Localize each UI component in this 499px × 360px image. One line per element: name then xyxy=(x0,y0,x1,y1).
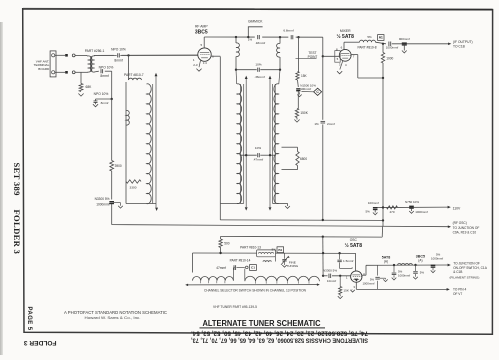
channel selector coil row (right group) xyxy=(245,276,320,281)
svg-text:8mmf: 8mmf xyxy=(114,58,122,62)
wire: bus down to 15K xyxy=(298,37,300,71)
svg-text:1000mmf: 1000mmf xyxy=(431,257,443,261)
svg-text:ON-OFF SWITCH, C1A: ON-OFF SWITCH, C1A xyxy=(453,266,488,270)
svg-text:½ 5AT8: ½ 5AT8 xyxy=(336,33,354,40)
coil bank L2b xyxy=(237,84,242,204)
svg-text:150K: 150K xyxy=(300,111,308,115)
svg-text:10%: 10% xyxy=(255,63,261,67)
channel selector coil row (left group) xyxy=(193,277,234,281)
svg-text:PAGE 5: PAGE 5 xyxy=(26,307,32,331)
oscillator tank top line xyxy=(193,252,356,254)
svg-text:8mmf: 8mmf xyxy=(100,74,108,78)
svg-text:PART #810-13: PART #810-13 xyxy=(240,246,261,250)
svg-text:OF V7: OF V7 xyxy=(453,292,462,296)
alignment diamond C xyxy=(302,91,314,93)
resistor 1000 ohm (mixer plate load) xyxy=(382,43,384,45)
osc filament bottom line xyxy=(355,282,357,289)
svg-text:1%: 1% xyxy=(314,122,319,126)
wire down left rail xyxy=(111,99,113,161)
capacitor .36mmf 10% (link) xyxy=(236,69,257,71)
svg-text:5%: 5% xyxy=(367,35,372,39)
svg-text:A PHOTOFACT STANDARD NOTATION: A PHOTOFACT STANDARD NOTATION SCHEMATIC xyxy=(64,310,168,315)
capacitor N3300 5% 1000mmf feedthrough to ground xyxy=(109,201,114,203)
capacitor 1000mmf 5% to ground (second) xyxy=(414,264,416,266)
bus B+ (y 220) xyxy=(220,219,383,222)
ground: mixer cathode xyxy=(340,61,343,70)
svg-text:3: 3 xyxy=(339,63,341,67)
resistor 150K with ground xyxy=(295,109,298,118)
svg-text:MIXER: MIXER xyxy=(340,29,351,33)
svg-text:TO JUNCTION OF: TO JUNCTION OF xyxy=(453,261,480,265)
node: grid line junction xyxy=(127,54,129,56)
svg-text:5%: 5% xyxy=(365,209,370,213)
fine tuning capacitor xyxy=(284,253,286,259)
110V line xyxy=(375,206,448,209)
svg-text:10%: 10% xyxy=(255,146,261,150)
wire: osc plate riser xyxy=(355,253,357,271)
svg-text:PART #810-7: PART #810-7 xyxy=(124,73,144,77)
svg-text:2-3: 2-3 xyxy=(193,63,198,67)
svg-text:(RF OSC): (RF OSC) xyxy=(453,221,467,225)
svg-text:1: 1 xyxy=(193,58,195,62)
bus to oscillator (y 236.5) xyxy=(221,235,383,238)
wiper arrows bank 1 xyxy=(155,76,157,208)
capacitor NPO 10% 8mmf to ground xyxy=(96,98,112,100)
wire: secondary top to grid line xyxy=(93,54,95,57)
svg-text:6.8mmf: 6.8mmf xyxy=(283,28,293,32)
svg-text:GIMMICK: GIMMICK xyxy=(248,19,263,23)
filament line from pin 4 xyxy=(362,274,366,276)
svg-text:(FILAMENT STRING): (FILAMENT STRING) xyxy=(450,276,480,280)
svg-text:C1: C1 xyxy=(251,266,255,270)
node xyxy=(111,98,113,100)
svg-text:4: 4 xyxy=(345,63,347,67)
svg-text:N750 10%: N750 10% xyxy=(405,200,419,204)
svg-text:4 4: 4 4 xyxy=(203,61,207,65)
svg-text:2mmf: 2mmf xyxy=(327,122,335,126)
svg-text:OSC: OSC xyxy=(350,238,358,242)
alignment box C1 xyxy=(246,266,249,269)
VHF antenna terminal board xyxy=(50,51,56,77)
coil (filament choke) xyxy=(398,264,413,266)
resistor 6800 ohm across bank3 taps xyxy=(282,146,298,148)
wire: left side of channel selector xyxy=(192,253,194,273)
svg-text:PART #810-8: PART #810-8 xyxy=(358,45,377,49)
svg-text:ALTERNATE TUNER SCHEMATIC: ALTERNATE TUNER SCHEMATIC xyxy=(203,319,321,328)
svg-text:1000mmf: 1000mmf xyxy=(398,274,410,278)
coil PART #810-8 xyxy=(360,40,376,42)
wire: mixer plate riser xyxy=(343,42,345,49)
svg-text:1000mmf: 1000mmf xyxy=(415,210,428,214)
coil L3a (top, hangs from bus) xyxy=(279,36,281,38)
svg-text:TO JUNCTION OF: TO JUNCTION OF xyxy=(453,226,480,230)
coupling to heater return: vertical with capacitor xyxy=(377,265,379,289)
IF output arrow xyxy=(448,42,451,45)
resistor 15K to ground xyxy=(339,275,341,277)
capacitor .18mmf 1% (series on bus) xyxy=(255,35,262,40)
svg-text:7: 7 xyxy=(353,54,355,58)
svg-text:470: 470 xyxy=(389,210,394,214)
long AGC bus xyxy=(112,225,450,227)
svg-text:5: 5 xyxy=(201,43,203,47)
wire: upper antenna lead xyxy=(55,54,65,56)
svg-text:3BC5: 3BC5 xyxy=(195,30,208,36)
svg-text:5%: 5% xyxy=(272,248,277,252)
capacitor 2mmf 1% (series in grid leak) xyxy=(319,120,326,125)
svg-text:C9A, R19 & C10: C9A, R19 & C10 xyxy=(453,230,477,234)
wire: mixer pin 7 to plate rail xyxy=(351,54,358,56)
channel selector shaft arrow xyxy=(187,284,319,286)
svg-text:2: 2 xyxy=(351,266,353,270)
svg-text:C: C xyxy=(316,90,319,94)
svg-text:47mmf: 47mmf xyxy=(216,266,226,270)
riser: cap branch xyxy=(232,268,234,281)
wire: grid tap to mixer xyxy=(322,55,324,57)
svg-text:900mmf: 900mmf xyxy=(399,37,410,41)
svg-text:BOARD: BOARD xyxy=(38,67,50,71)
svg-text:6: 6 xyxy=(341,45,343,49)
wire: bus right end down to mixer grid xyxy=(322,37,324,220)
svg-text:15K: 15K xyxy=(301,74,308,78)
wiper arrows bank 3 xyxy=(269,79,271,207)
wire: down from secondary network xyxy=(111,71,113,99)
svg-text:RF AMP: RF AMP xyxy=(195,24,208,28)
resistor 3900 ohm xyxy=(110,161,114,172)
capacitor 1.5mmf xyxy=(338,252,340,254)
coil L2a (top, hangs from bus) xyxy=(235,36,237,38)
svg-text:NPO 10%: NPO 10% xyxy=(94,92,109,96)
capacitor NPO 10% 8mmf (secondary bottom) xyxy=(94,70,99,73)
resistor 470 ohm xyxy=(387,206,398,209)
svg-text:5: 5 xyxy=(337,57,339,61)
svg-text:(A): (A) xyxy=(384,260,388,264)
wire: bank2 bottom xyxy=(220,202,243,204)
grid chain: vertical from top xyxy=(322,237,324,276)
svg-text:SILVERTONE CHASSIS 528.50060,: SILVERTONE CHASSIS 528.50060, 62, 63, 64… xyxy=(191,337,368,344)
svg-text:A1: A1 xyxy=(379,36,383,40)
svg-text:Howard W. Sams & Co., Inc.: Howard W. Sams & Co., Inc. xyxy=(85,316,141,320)
svg-text:VHF TUNER PART #95-139-5: VHF TUNER PART #95-139-5 xyxy=(213,305,257,309)
wire: pin 6 to plate rail xyxy=(211,55,220,57)
capacitor NPO 10% 8mmf (series, grid line) xyxy=(117,53,119,57)
svg-text:NPO 10%: NPO 10% xyxy=(111,48,126,52)
svg-text:FOLDER 3: FOLDER 3 xyxy=(24,339,57,346)
svg-text:B1: B1 xyxy=(278,248,282,252)
wiper arrows bank 2 xyxy=(245,79,247,207)
svg-text:15K: 15K xyxy=(343,289,349,293)
svg-text:1000mmf: 1000mmf xyxy=(362,282,374,286)
svg-text:100mmf: 100mmf xyxy=(368,201,379,205)
wire: lower antenna lead xyxy=(55,71,65,73)
wire: to IF output xyxy=(376,42,387,44)
svg-text:3: 3 xyxy=(353,285,355,289)
svg-text:3300: 3300 xyxy=(130,186,137,190)
svg-text:.47mmf: .47mmf xyxy=(253,157,263,161)
svg-text:.36mmf: .36mmf xyxy=(254,75,264,79)
svg-text:.18mmf: .18mmf xyxy=(255,41,265,45)
node: bus to 15K chain xyxy=(297,36,299,38)
svg-text:N3300 5%: N3300 5% xyxy=(95,197,110,201)
svg-text:FOLDER 3: FOLDER 3 xyxy=(12,210,22,255)
svg-text:1000mmf: 1000mmf xyxy=(96,203,109,207)
svg-text:10mmf: 10mmf xyxy=(327,279,336,283)
svg-text:1000: 1000 xyxy=(386,56,393,60)
svg-text:1%: 1% xyxy=(248,37,253,41)
svg-text:CHANNEL SELECTOR SWITCH SHOWN: CHANNEL SELECTOR SWITCH SHOWN IN CHANNEL… xyxy=(204,288,307,292)
alignment box A1 xyxy=(378,35,384,41)
svg-text:74, 75, 528.50120, 21, 23, 24,: 74, 75, 528.50120, 21, 23, 24, 26, 40, 4… xyxy=(191,330,368,337)
cathode line with capacitor N3300 5% 10mmf xyxy=(322,275,324,277)
svg-text:(A): (A) xyxy=(418,259,422,263)
svg-text:500: 500 xyxy=(224,241,230,245)
svg-text:PART #810-14: PART #810-14 xyxy=(230,258,251,262)
capacitor 1000mmf (series) xyxy=(388,42,390,47)
svg-text:SET 389: SET 389 xyxy=(12,163,22,196)
svg-text:1.5mmf: 1.5mmf xyxy=(343,259,353,263)
svg-text:& C1B: & C1B xyxy=(453,270,462,274)
contact ticks xyxy=(200,281,202,284)
wire + ground: bank3 bottom xyxy=(273,202,288,204)
resistor 500 ohm xyxy=(220,236,222,239)
svg-text:110V: 110V xyxy=(453,206,461,210)
top bus wire xyxy=(204,36,323,38)
wire: plate rail down to B+ bus xyxy=(382,78,384,227)
coil bank L3b xyxy=(274,84,279,204)
ground at cathode xyxy=(199,61,201,68)
capacitor .47mmf 10% (bank link) xyxy=(240,154,257,156)
capacitor 1000mmf 5% to ground (filament) xyxy=(393,264,395,266)
svg-text:NPO 10%: NPO 10% xyxy=(99,65,114,69)
svg-text:1000mmf: 1000mmf xyxy=(386,46,399,50)
svg-text:PART #256-1: PART #256-1 xyxy=(85,49,105,53)
svg-text:68K: 68K xyxy=(86,85,93,89)
resistor 15K xyxy=(296,72,299,81)
RF OSC arrow xyxy=(448,225,451,228)
svg-text:3900: 3900 xyxy=(115,164,122,168)
coil (small) on left rail xyxy=(126,110,129,125)
svg-text:5%: 5% xyxy=(420,270,425,274)
capacitor 6.8mmf (series on bus) xyxy=(288,35,295,40)
svg-text:TO C1B: TO C1B xyxy=(453,44,466,48)
110V arrow xyxy=(448,206,451,209)
svg-text:½ 5AT8: ½ 5AT8 xyxy=(345,242,363,249)
resistor 3300 ohm 5% xyxy=(126,180,141,183)
resistor 68K with ground xyxy=(80,72,82,83)
svg-text:100mmf: 100mmf xyxy=(300,87,311,91)
svg-text:TUNING: TUNING xyxy=(286,264,298,268)
svg-text:6800: 6800 xyxy=(300,157,307,161)
svg-text:N3300 5%: N3300 5% xyxy=(323,268,337,272)
wire: plate riser to top bus xyxy=(203,37,205,48)
svg-text:8mmf: 8mmf xyxy=(101,101,109,105)
